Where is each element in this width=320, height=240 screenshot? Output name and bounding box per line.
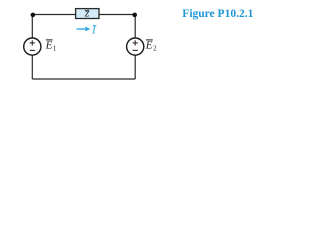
label E1-bar — [45, 39, 57, 52]
wire right vertical (E2 bottom to bottom rail) — [134, 56, 136, 80]
label E2-bar — [145, 39, 157, 52]
svg-text:Figure P10.2.1: Figure P10.2.1 — [182, 8, 253, 20]
current arrow I — [77, 27, 91, 32]
E1 minus sign — [30, 49, 35, 51]
node junction dot right — [132, 13, 137, 18]
svg-text:z: z — [84, 8, 90, 20]
E2 plus sign — [133, 40, 138, 45]
impedance box Z — [76, 9, 99, 19]
svg-text:I: I — [91, 25, 97, 37]
wire top horizontal — [32, 14, 135, 16]
svg-text:E: E — [145, 39, 153, 51]
E1 plus sign — [30, 40, 35, 45]
wire bottom horizontal — [32, 78, 135, 80]
node junction dot left — [31, 13, 36, 18]
current label I-bar — [91, 25, 97, 37]
source E1 circle — [24, 38, 41, 55]
wire right vertical (node to E2 top) — [134, 15, 136, 39]
svg-text:1: 1 — [53, 44, 57, 52]
svg-text:2: 2 — [153, 44, 157, 52]
E2 minus sign — [133, 49, 138, 51]
wire left vertical (E1 bottom to bottom rail) — [31, 56, 33, 80]
source E2 circle — [127, 38, 144, 55]
wire left vertical (node to E1 top) — [31, 15, 33, 39]
impedance value label z-bar — [84, 8, 90, 20]
svg-text:E: E — [45, 39, 53, 51]
